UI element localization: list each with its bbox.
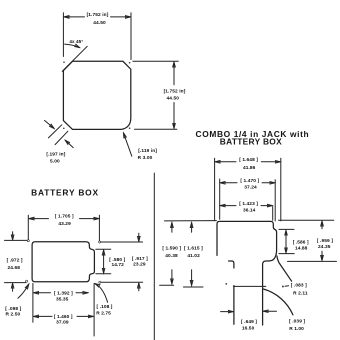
top dim 1.423 ext line (272, 207, 274, 221)
svg-text:44.50: 44.50 (167, 96, 180, 102)
corner dot TL (63, 61, 65, 63)
corner dot BL (63, 128, 65, 130)
svg-text:R 2.11: R 2.11 (293, 291, 308, 297)
svg-text:14.72: 14.72 (111, 262, 124, 268)
svg-text:41.86: 41.86 (243, 165, 256, 171)
left ext line to shape (165, 220, 217, 222)
svg-text:R 3.00: R 3.00 (138, 155, 153, 161)
left dim arrows (12, 232, 14, 240)
top width dimension arrows (64, 16, 84, 18)
chamfer note 4x45 diagonal (62, 46, 87, 71)
svg-text:[ 1.590 ]: [ 1.590 ] (162, 246, 181, 252)
dim 1.460 arrows (34, 315, 52, 317)
svg-text:R 2.50: R 2.50 (6, 312, 21, 318)
svg-text:36.14: 36.14 (243, 207, 256, 213)
dim 1.392 arrows (34, 292, 50, 294)
svg-text:[1.752 in]: [1.752 in] (87, 12, 109, 18)
top dim 1.648 ext lines (214, 158, 216, 220)
right dim .959 arrows (321, 222, 323, 229)
svg-text:[1.752 in]: [1.752 in] (164, 88, 186, 94)
battery box outline (32, 242, 94, 282)
svg-text:35.35: 35.35 (56, 296, 69, 302)
svg-text:[ .972 ]: [ .972 ] (7, 258, 23, 264)
svg-text:R 2.75: R 2.75 (96, 310, 111, 316)
top dim 1.470 ext lines (219, 179, 221, 219)
svg-text:[ .580 ]: [ .580 ] (109, 257, 125, 263)
svg-text:R 1.00: R 1.00 (289, 326, 304, 332)
radius R2.11 dot (282, 286, 284, 288)
left dim .972 ext lines (5, 239, 28, 241)
svg-text:[ 1.392 ]: [ 1.392 ] (54, 291, 73, 297)
top dim 1.423 arrows (221, 205, 236, 207)
tangent circle BR (99, 281, 101, 283)
svg-text:[ .586 ]: [ .586 ] (293, 239, 309, 245)
top width dimension 1.752in ext lines (62, 13, 64, 57)
jack body curve lower (263, 289, 293, 315)
chamfer size arrow 2 (66, 141, 74, 148)
svg-text:43.29: 43.29 (58, 221, 71, 227)
bottom dim .649 arrows (221, 311, 233, 313)
svg-text:23.29: 23.29 (133, 261, 146, 267)
box top dim 1.705 ext lines (27, 215, 29, 239)
svg-text:5.00: 5.00 (50, 158, 60, 164)
svg-text:24.35: 24.35 (318, 244, 331, 250)
reference line across barrel (233, 285, 265, 287)
tangent circle BL (26, 280, 28, 282)
right dim .917 ext lines (101, 241, 143, 243)
step dim .586 ext lines (279, 228, 294, 230)
svg-text:[ 1.705 ]: [ 1.705 ] (55, 213, 74, 219)
svg-text:37.24: 37.24 (244, 185, 257, 191)
top dim 1.648 arrows (216, 161, 236, 163)
left dim 1.590 arrows (171, 223, 173, 232)
right height dimension 1.752in ext lines (133, 60, 179, 62)
chamfer size dim tick A (48, 125, 61, 138)
chamfer size dim tick B (55, 131, 68, 144)
svg-text:40.38: 40.38 (165, 253, 178, 259)
top dim 1.470 arrows (221, 182, 237, 184)
combo jack barrel left edge (233, 286, 235, 325)
svg-text:[ .917 ]: [ .917 ] (132, 256, 148, 262)
svg-text:BATTERY BOX: BATTERY BOX (31, 187, 99, 197)
chamfer size arrow 1 (45, 120, 54, 128)
corner dot BR (129, 127, 131, 129)
step dim .586 double arrow (285, 231, 287, 253)
svg-text:37.09: 37.09 (56, 320, 69, 326)
radius leader R2.75 (95, 284, 107, 303)
corner radius leader R3.00 (124, 133, 132, 156)
svg-text:[ 1.460 ]: [ 1.460 ] (54, 314, 73, 320)
chamfer note arc with arrow (65, 44, 80, 47)
svg-text:[ .039 ]: [ .039 ] (289, 319, 305, 325)
right dim .959 ext lines (279, 219, 334, 221)
svg-text:24.68: 24.68 (8, 265, 21, 271)
radius R2.11 dash (285, 285, 289, 288)
svg-text:[ 1.423 ]: [ 1.423 ] (239, 201, 258, 207)
page fold divider line (153, 173, 155, 340)
svg-text:16.50: 16.50 (242, 325, 255, 331)
left dim 1.590 ref line (160, 284, 174, 286)
jack body curve upper (277, 256, 292, 281)
svg-text:[ .098 ]: [ .098 ] (5, 306, 21, 312)
svg-text:14.88: 14.88 (295, 245, 308, 251)
tangent circle TR (99, 241, 101, 243)
radius leader R2.50 (18, 284, 29, 298)
tangent circle TL (27, 240, 29, 242)
combo jack bottom-left corner piece (229, 261, 234, 268)
tab dim double arrow (103, 250, 105, 272)
tab dim .580 ext lines (96, 248, 111, 250)
svg-text:44.50: 44.50 (93, 20, 106, 26)
svg-text:[ .083 ]: [ .083 ] (291, 283, 307, 289)
svg-text:[ .649 ]: [ .649 ] (241, 319, 257, 325)
bottom dims ext lines (32, 283, 34, 322)
svg-text:[ .108 ]: [ .108 ] (97, 304, 113, 310)
svg-text:4x 45°: 4x 45° (69, 39, 83, 44)
svg-text:[ 1.648 ]: [ 1.648 ] (239, 157, 258, 163)
combo jack outline main (217, 221, 277, 325)
svg-text:[.119 in]: [.119 in] (138, 148, 157, 154)
svg-text:[ .959 ]: [ .959 ] (317, 238, 333, 244)
svg-text:41.02: 41.02 (187, 253, 200, 259)
box top dim arrows (29, 218, 48, 220)
svg-text:BATTERY BOX: BATTERY BOX (220, 137, 282, 147)
corner dot TR (129, 62, 131, 64)
svg-text:[ 1.615 ]: [ 1.615 ] (184, 246, 203, 252)
svg-text:[ 1.470 ]: [ 1.470 ] (240, 178, 259, 184)
square hole outline (top-left view) (63, 61, 130, 129)
left dim 1.615 ref line (183, 286, 203, 288)
left dim 1.615 arrows (191, 223, 193, 232)
right dim arrows (138, 233, 140, 241)
reference dot left of barrel (225, 283, 227, 285)
right height dimension arrows (173, 63, 175, 85)
svg-text:[.197 in]: [.197 in] (46, 151, 65, 157)
